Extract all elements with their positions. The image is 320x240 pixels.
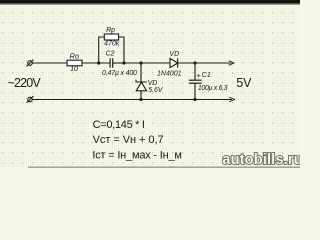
wire: Rp to node B riser (right leg) bbox=[119, 37, 124, 63]
node F junction dot bbox=[193, 98, 196, 101]
resistor Ro (box) bbox=[67, 60, 82, 66]
resistor Rp (box) bbox=[104, 34, 118, 40]
svg-text:VD: VD bbox=[169, 51, 179, 58]
svg-text:0,47µ x 400: 0,47µ x 400 bbox=[102, 70, 137, 77]
wire: diode cathode to node D bbox=[178, 62, 232, 64]
svg-text:10: 10 bbox=[70, 66, 78, 73]
capacitor C2 plates bbox=[110, 58, 113, 67]
svg-text:VD: VD bbox=[148, 80, 158, 87]
node A junction dot bbox=[97, 61, 100, 64]
wire: input X1 to resistor Ro bbox=[32, 62, 67, 64]
svg-text:5V: 5V bbox=[236, 76, 252, 90]
wire: C2 right plate to node B bbox=[113, 62, 124, 64]
wire: node B to diode VD anode bbox=[124, 62, 170, 64]
wire: zener anode down to node E bbox=[140, 91, 142, 100]
svg-text:100µ x 6,3: 100µ x 6,3 bbox=[198, 85, 228, 92]
wire: node C down to zener bbox=[140, 63, 142, 82]
wire: bottom rail X2 to output bbox=[32, 99, 232, 101]
wire: C1 bottom plate down to node F bbox=[194, 83, 196, 99]
wire: Ro to node A bbox=[82, 62, 110, 64]
svg-text:Vст = Vн + 0,7: Vст = Vн + 0,7 bbox=[93, 134, 164, 146]
node D junction dot bbox=[193, 61, 196, 64]
wire: node D down to capacitor C1 bbox=[194, 63, 196, 80]
svg-text:+: + bbox=[196, 71, 201, 80]
watermark autobills.ru bbox=[222, 152, 302, 168]
node E junction dot bbox=[139, 98, 142, 101]
node C junction dot (zener tap) bbox=[139, 61, 142, 64]
svg-text:470k: 470k bbox=[104, 41, 120, 48]
input terminal X2 (bottom, ~220V neutral) bbox=[27, 96, 34, 103]
svg-text:C1: C1 bbox=[202, 72, 211, 79]
svg-text:C2: C2 bbox=[106, 51, 115, 58]
node B junction dot bbox=[122, 61, 125, 64]
svg-text:C=0,145 * I: C=0,145 * I bbox=[93, 119, 145, 131]
output arrow terminal (+ 5V) bbox=[229, 61, 235, 65]
svg-text:~220V: ~220V bbox=[8, 76, 42, 90]
wire: node A riser up to resistor Rp (left leg) bbox=[99, 37, 105, 63]
svg-text:Ro: Ro bbox=[70, 51, 80, 60]
svg-text:Iст = Iн_мах - Iн_м: Iст = Iн_мах - Iн_м bbox=[92, 150, 181, 162]
capacitor C1 plates (electrolytic) bbox=[189, 80, 202, 83]
zener diode VD 5.6V (cathode bar + triangle) bbox=[136, 80, 147, 91]
svg-text:5.6V: 5.6V bbox=[148, 87, 164, 94]
input terminal X1 (top, ~220V phase) bbox=[27, 60, 34, 67]
svg-text:autobills.ru: autobills.ru bbox=[222, 152, 300, 168]
svg-text:1N4001: 1N4001 bbox=[157, 70, 182, 77]
diode VD 1N4001 (triangle + cathode bar) bbox=[170, 58, 178, 67]
svg-text:Rp: Rp bbox=[106, 27, 115, 34]
output arrow terminal (- 5V) bbox=[229, 97, 235, 101]
